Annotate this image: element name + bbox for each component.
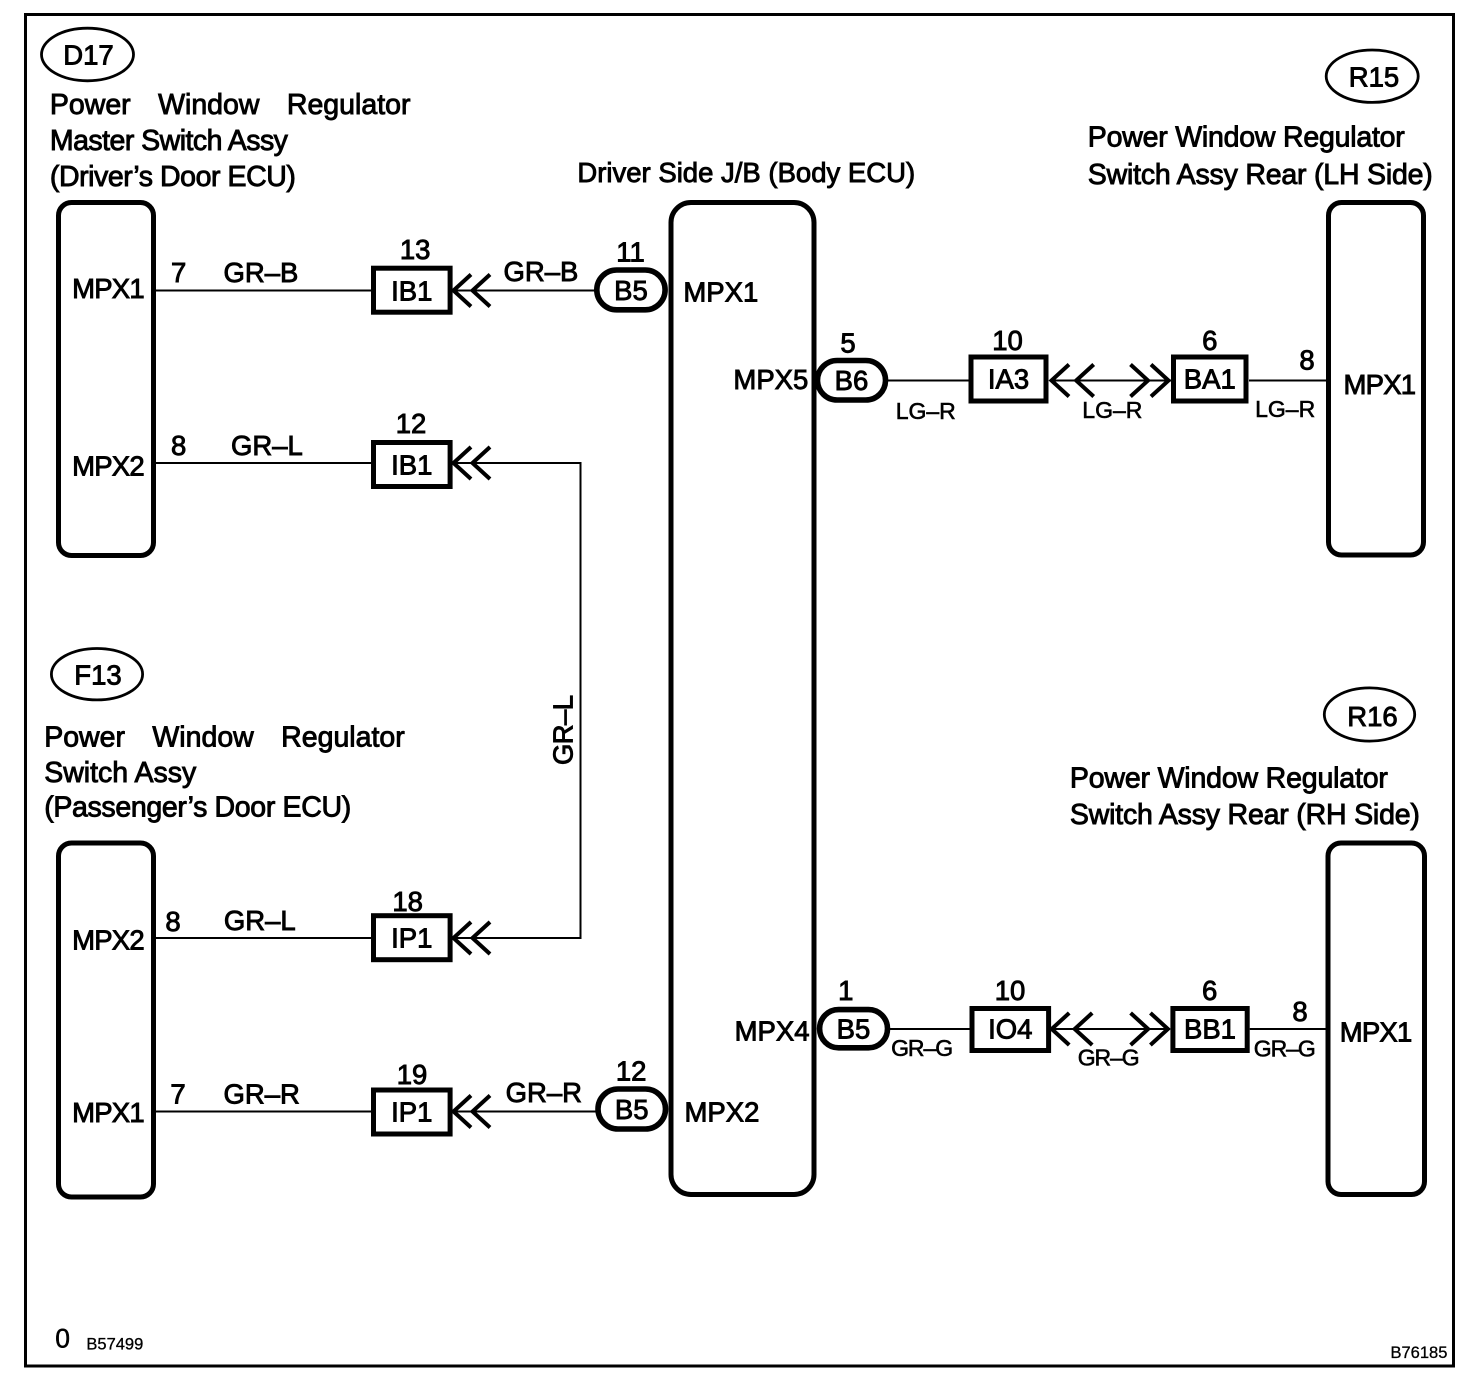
svg-text:Power Window Regulator: Power Window Regulator — [1088, 121, 1406, 153]
svg-text:Power Window Regulator: Power Window Regulator — [44, 721, 405, 753]
svg-text:7: 7 — [171, 257, 186, 288]
svg-text:6: 6 — [1202, 975, 1217, 1006]
svg-text:B5: B5 — [837, 1013, 871, 1044]
svg-text:12: 12 — [616, 1055, 647, 1086]
svg-text:MPX2: MPX2 — [685, 1097, 760, 1128]
svg-text:GR–G: GR–G — [1078, 1045, 1140, 1071]
svg-text:18: 18 — [392, 886, 423, 917]
svg-text:(Passenger’s Door ECU): (Passenger’s Door ECU) — [44, 792, 351, 824]
svg-text:5: 5 — [840, 328, 855, 359]
svg-text:IO4: IO4 — [988, 1014, 1032, 1045]
svg-text:MPX1: MPX1 — [683, 276, 758, 307]
svg-text:0: 0 — [55, 1324, 70, 1354]
svg-text:R15: R15 — [1349, 62, 1399, 93]
svg-text:10: 10 — [995, 975, 1026, 1006]
svg-text:LG–R: LG–R — [896, 398, 956, 424]
svg-text:Switch Assy Rear (RH Side): Switch Assy Rear (RH Side) — [1070, 799, 1420, 831]
svg-text:Switch Assy Rear (LH Side): Switch Assy Rear (LH Side) — [1088, 159, 1433, 191]
svg-text:Master Switch Assy: Master Switch Assy — [50, 125, 289, 157]
svg-text:GR–G: GR–G — [891, 1035, 953, 1061]
svg-text:GR–L: GR–L — [224, 905, 296, 936]
svg-text:B57499: B57499 — [86, 1336, 143, 1354]
svg-text:GR–R: GR–R — [506, 1077, 582, 1108]
svg-text:BB1: BB1 — [1184, 1014, 1236, 1045]
svg-text:IB1: IB1 — [391, 450, 432, 481]
svg-text:MPX1: MPX1 — [72, 273, 144, 304]
svg-text:Power Window Regulator: Power Window Regulator — [1070, 763, 1389, 795]
svg-text:D17: D17 — [63, 40, 113, 71]
svg-text:Driver Side J/B (Body ECU): Driver Side J/B (Body ECU) — [577, 157, 915, 188]
svg-text:F13: F13 — [74, 659, 121, 690]
svg-text:B6: B6 — [835, 365, 869, 396]
svg-text:MPX2: MPX2 — [72, 925, 144, 956]
svg-text:IP1: IP1 — [391, 1097, 432, 1128]
svg-text:B5: B5 — [614, 275, 648, 306]
svg-text:10: 10 — [992, 325, 1023, 356]
svg-text:GR–G: GR–G — [1254, 1036, 1316, 1062]
svg-text:19: 19 — [397, 1059, 428, 1090]
svg-text:Power Window Regulator: Power Window Regulator — [50, 89, 411, 121]
svg-text:MPX2: MPX2 — [72, 451, 144, 482]
svg-text:R16: R16 — [1347, 701, 1397, 732]
svg-text:BA1: BA1 — [1184, 364, 1236, 395]
svg-text:(Driver’s Door ECU): (Driver’s Door ECU) — [50, 161, 296, 193]
svg-text:GR–L: GR–L — [231, 430, 303, 461]
svg-text:B5: B5 — [615, 1094, 649, 1125]
svg-text:LG–R: LG–R — [1082, 397, 1142, 423]
svg-text:MPX5: MPX5 — [733, 364, 808, 395]
svg-text:12: 12 — [396, 408, 427, 439]
svg-text:13: 13 — [400, 234, 431, 265]
svg-text:8: 8 — [171, 430, 186, 461]
svg-text:8: 8 — [1299, 345, 1314, 376]
svg-text:8: 8 — [165, 906, 180, 937]
svg-text:MPX4: MPX4 — [735, 1016, 810, 1047]
svg-text:6: 6 — [1202, 325, 1217, 356]
svg-text:B76185: B76185 — [1391, 1344, 1448, 1362]
svg-text:11: 11 — [616, 236, 645, 267]
svg-text:IP1: IP1 — [391, 923, 432, 954]
svg-text:1: 1 — [838, 975, 853, 1006]
svg-text:GR–B: GR–B — [224, 257, 299, 288]
svg-text:GR–R: GR–R — [224, 1079, 300, 1110]
svg-text:GR–B: GR–B — [504, 256, 579, 287]
svg-text:IA3: IA3 — [988, 364, 1029, 395]
svg-text:MPX1: MPX1 — [72, 1097, 144, 1128]
svg-text:GR–L: GR–L — [548, 695, 579, 765]
svg-text:8: 8 — [1292, 996, 1307, 1027]
svg-text:Switch Assy: Switch Assy — [44, 757, 197, 789]
svg-text:7: 7 — [170, 1079, 185, 1110]
svg-text:MPX1: MPX1 — [1340, 1017, 1413, 1048]
svg-text:IB1: IB1 — [391, 276, 432, 307]
svg-text:LG–R: LG–R — [1255, 396, 1315, 422]
svg-text:MPX1: MPX1 — [1344, 369, 1417, 400]
